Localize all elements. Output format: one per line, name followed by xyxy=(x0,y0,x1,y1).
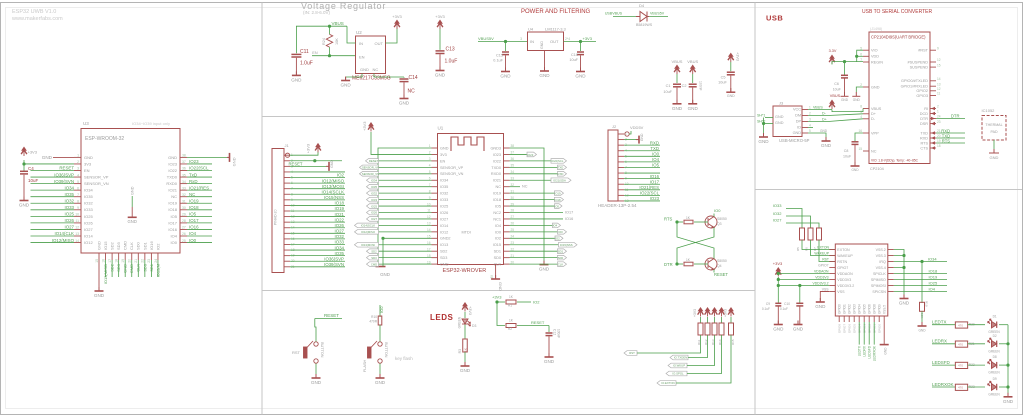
svg-text:7: 7 xyxy=(77,193,79,197)
svg-text:2: 2 xyxy=(429,151,431,155)
svg-text:1: 1 xyxy=(77,154,79,158)
U6 left pin names and stubs xyxy=(863,50,869,151)
svg-text:IO23: IO23 xyxy=(189,159,199,164)
svg-text:IO16: IO16 xyxy=(189,225,199,230)
svg-text:+3V3: +3V3 xyxy=(468,306,472,315)
svg-text:GND: GND xyxy=(131,186,135,195)
wire U1 right GND3 xyxy=(510,148,545,265)
svg-text:SENSOR_VP: SENSOR_VP xyxy=(440,166,464,170)
wire EN net xyxy=(312,55,356,57)
svg-text:11: 11 xyxy=(937,92,941,96)
svg-text:IO32: IO32 xyxy=(440,192,448,196)
svg-text:R6: R6 xyxy=(805,247,809,251)
LED D3 xyxy=(464,312,466,318)
module U3 ESP-WROOM-32 body xyxy=(81,129,180,254)
wire R10 to S2 xyxy=(379,325,381,342)
svg-text:GPIO3: GPIO3 xyxy=(916,94,928,98)
ground below C13 xyxy=(436,67,445,71)
panel divider middle top xyxy=(262,116,755,118)
svg-text:23: 23 xyxy=(937,120,941,124)
ground below C4 xyxy=(20,197,29,201)
svg-text:IO19: IO19 xyxy=(334,206,344,211)
svg-text:RESET: RESET xyxy=(369,159,379,163)
svg-text:SENSOR_VN: SENSOR_VN xyxy=(362,172,379,176)
svg-text:C13: C13 xyxy=(446,47,455,53)
wire LEDSFD to resistor xyxy=(932,364,955,366)
svg-text:39: 39 xyxy=(490,275,494,279)
svg-text:IO22(SCL: IO22(SCL xyxy=(189,166,209,171)
svg-text:VSS.4: VSS.4 xyxy=(876,266,886,270)
svg-text:IO12(MISO: IO12(MISO xyxy=(52,238,75,243)
resistor R22 xyxy=(955,362,967,368)
svg-text:RESET: RESET xyxy=(289,161,303,166)
svg-text:IO32: IO32 xyxy=(371,191,378,195)
svg-text:GND: GND xyxy=(168,155,177,160)
svg-text:IO2: IO2 xyxy=(337,173,345,178)
svg-text:VIO: VIO xyxy=(871,49,878,53)
svg-text:GND: GND xyxy=(884,347,888,355)
svg-text:VCC: VCC xyxy=(793,108,801,112)
LED D8 green xyxy=(988,359,997,368)
svg-text:DSR: DSR xyxy=(920,122,928,126)
power arrow VBUS C2 xyxy=(690,65,696,75)
svg-text:C9: C9 xyxy=(766,302,770,306)
svg-text:IO18: IO18 xyxy=(929,269,938,274)
svg-text:LEDSFD: LEDSFD xyxy=(932,360,951,365)
svg-text:IO5: IO5 xyxy=(652,163,660,168)
svg-text:ID: ID xyxy=(797,126,801,130)
svg-text:IO5: IO5 xyxy=(189,212,197,217)
svg-text:1.0uF: 1.0uF xyxy=(300,61,313,67)
svg-text:GPIO0: GPIO0 xyxy=(838,304,842,314)
svg-text:C6: C6 xyxy=(834,82,839,86)
svg-text:CP2104: CP2104 xyxy=(870,167,884,171)
ground below C2 xyxy=(688,100,697,104)
svg-text:IO.WKUP: IO.WKUP xyxy=(673,364,685,368)
svg-text:38: 38 xyxy=(511,144,515,148)
wires resistors to chip pins xyxy=(802,240,835,250)
svg-text:THERMAL: THERMAL xyxy=(985,123,1002,127)
svg-text:LEDS: LEDS xyxy=(430,313,454,322)
wire IRQ to IO34 xyxy=(894,261,947,263)
capacitor C3 input xyxy=(505,42,507,52)
svg-text:IO34: IO34 xyxy=(64,185,74,190)
junction J1 reset xyxy=(313,159,316,162)
svg-text:16: 16 xyxy=(427,241,431,245)
wire VBUS top to U2 IN xyxy=(347,26,356,43)
capacitor C10 xyxy=(798,284,801,287)
svg-text:25: 25 xyxy=(182,239,186,243)
ground below output cap xyxy=(576,68,585,72)
svg-text:RXD: RXD xyxy=(920,136,928,140)
svg-text:IO19: IO19 xyxy=(493,192,501,196)
svg-text:IO15(NSS: IO15(NSS xyxy=(324,195,344,200)
junction output cap xyxy=(579,40,582,43)
svg-text:35: 35 xyxy=(511,164,515,168)
svg-text:D1: D1 xyxy=(993,315,997,319)
svg-text:28: 28 xyxy=(182,219,186,223)
U3 right GND wire xyxy=(187,156,227,158)
svg-text:WAKEUP: WAKEUP xyxy=(814,251,829,255)
svg-text:POWER AND FILTERING: POWER AND FILTERING xyxy=(521,9,591,15)
pull-up resistor R15 xyxy=(730,317,732,323)
svg-text:CP2104DI9S(UART BRIDGE): CP2104DI9S(UART BRIDGE) xyxy=(871,35,926,40)
wire LEDRX to resistor xyxy=(932,343,955,345)
svg-text:IO14(SCLK: IO14(SCLK xyxy=(361,224,375,228)
svg-text:USB-MICRO-5P: USB-MICRO-5P xyxy=(779,138,810,143)
svg-text:4: 4 xyxy=(860,115,862,119)
svg-text:IO33: IO33 xyxy=(334,240,344,245)
U6 DTR output arrow xyxy=(931,117,935,121)
U1 left flags xyxy=(366,160,432,162)
svg-text:NC2: NC2 xyxy=(493,211,501,215)
svg-text:IO18: IO18 xyxy=(493,198,501,202)
svg-text:IO23: IO23 xyxy=(650,196,660,201)
ground below C3 xyxy=(501,68,510,72)
svg-text:GPIO0: GPIO0 xyxy=(878,324,882,334)
svg-text:22: 22 xyxy=(511,247,515,251)
svg-text:33: 33 xyxy=(511,176,515,180)
wire 3V3 rail to U3 pin 2 xyxy=(24,160,74,164)
svg-text:DM: DM xyxy=(795,114,801,118)
svg-text:IO0: IO0 xyxy=(171,240,178,245)
svg-text:RST: RST xyxy=(292,350,301,355)
svg-text:VBUS5V: VBUS5V xyxy=(650,12,665,16)
U3 left pin stubs xyxy=(74,157,81,242)
wire D2 cathode to rail xyxy=(999,343,1008,345)
svg-text:IO2: IO2 xyxy=(495,237,501,241)
panel divider vertical left xyxy=(261,3,263,415)
panel divider right column xyxy=(755,189,1022,191)
svg-text:+3V3: +3V3 xyxy=(306,143,311,153)
svg-text:SD2: SD2 xyxy=(110,263,115,272)
svg-text:ESP-WROOM-32: ESP-WROOM-32 xyxy=(85,136,124,142)
svg-text:27: 27 xyxy=(182,226,186,230)
capacitor C11 xyxy=(291,54,301,57)
svg-text:15: 15 xyxy=(858,147,862,151)
svg-text:3V3: 3V3 xyxy=(440,153,447,157)
svg-text:C12: C12 xyxy=(553,329,557,335)
resistor R19 IRQ pulldown xyxy=(921,262,923,304)
svg-text:26: 26 xyxy=(182,232,186,236)
svg-text:IO18: IO18 xyxy=(334,201,344,206)
svg-text:S8050: S8050 xyxy=(717,259,727,263)
svg-text:GND3: GND3 xyxy=(490,146,501,150)
svg-text:C2: C2 xyxy=(682,84,687,88)
wire VBUS rail xyxy=(296,26,347,53)
svg-text:IO26: IO26 xyxy=(440,211,448,215)
wire U2 OUT to +3V3 xyxy=(386,29,398,44)
svg-text:10K: 10K xyxy=(335,38,339,45)
svg-text:9: 9 xyxy=(429,196,431,200)
panel divider middle bottom xyxy=(262,290,755,292)
wires net labels to resistors xyxy=(786,209,802,229)
svg-text:LEDTX: LEDTX xyxy=(858,345,862,356)
svg-text:IO34~IO39 input only: IO34~IO39 input only xyxy=(132,121,170,126)
svg-text:(IN: 2.8-6.0V): (IN: 2.8-6.0V) xyxy=(303,10,331,15)
svg-text:D4: D4 xyxy=(639,3,645,8)
svg-text:GPIO2: GPIO2 xyxy=(848,304,852,314)
svg-text:GND: GND xyxy=(727,94,735,98)
LED D2 green xyxy=(988,338,997,347)
svg-text:GND: GND xyxy=(539,73,550,78)
svg-text:IO39(SVN: IO39(SVN xyxy=(54,179,74,184)
svg-text:SD1: SD1 xyxy=(558,250,564,254)
svg-text:#RST: #RST xyxy=(918,49,928,53)
svg-text:100nF: 100nF xyxy=(699,81,703,91)
svg-text:SD3: SD3 xyxy=(116,241,121,250)
svg-text:U3: U3 xyxy=(83,121,89,126)
junction RC group xyxy=(495,300,498,303)
svg-text:14: 14 xyxy=(427,228,431,232)
svg-text:SENSOR_VP: SENSOR_VP xyxy=(362,166,379,170)
svg-text:GND: GND xyxy=(291,77,302,82)
svg-text:SD2: SD2 xyxy=(440,250,447,254)
svg-text:D-: D- xyxy=(822,112,827,116)
svg-text:GREEN: GREEN xyxy=(988,393,1000,397)
ground below U4 xyxy=(540,67,549,71)
svg-text:17: 17 xyxy=(108,259,112,263)
svg-text:IO25: IO25 xyxy=(64,212,74,217)
ground below C8 xyxy=(851,162,860,166)
capacitor C13 xyxy=(439,29,441,50)
svg-text:TXD: TXD xyxy=(650,146,659,151)
svg-text:RXD: RXD xyxy=(558,172,564,176)
svg-text:CMD: CMD xyxy=(371,262,377,266)
svg-text:IO.SPOL: IO.SPOL xyxy=(672,372,684,376)
resistor R17 base Q4 xyxy=(677,263,683,265)
svg-text:IO34: IO34 xyxy=(928,257,937,262)
regulator U4 body xyxy=(528,32,564,51)
svg-text:IO17: IO17 xyxy=(650,179,660,184)
U7 right VSS wires to GND xyxy=(894,250,904,256)
svg-text:R24: R24 xyxy=(322,38,326,45)
svg-text:IO21(SDA: IO21(SDA xyxy=(553,179,566,183)
svg-text:RxD: RxD xyxy=(189,179,198,184)
svg-text:10: 10 xyxy=(75,213,79,217)
junctions and wires VDDAON VDD3V3 rows xyxy=(777,272,780,275)
svg-text:IO2: IO2 xyxy=(155,243,160,250)
svg-text:R10: R10 xyxy=(371,315,377,319)
svg-text:GND: GND xyxy=(544,359,555,364)
svg-text:RSTN: RSTN xyxy=(837,260,847,264)
svg-text:GND: GND xyxy=(775,115,784,119)
svg-text:TXD0: TXD0 xyxy=(491,166,501,170)
svg-text:U4: U4 xyxy=(528,27,534,32)
svg-text:IO4: IO4 xyxy=(929,287,936,292)
svg-text:IO25: IO25 xyxy=(84,214,93,219)
svg-text:18: 18 xyxy=(114,259,118,263)
svg-text:1K: 1K xyxy=(686,258,691,262)
svg-text:9: 9 xyxy=(937,46,939,50)
svg-text:30: 30 xyxy=(182,206,186,210)
U7 right pin stubs xyxy=(888,250,894,292)
svg-text:VDDAON: VDDAON xyxy=(814,270,829,274)
svg-text:IO13(MOSI: IO13(MOSI xyxy=(322,184,344,189)
svg-text:SD0: SD0 xyxy=(142,263,147,272)
svg-text:IO21(RES: IO21(RES xyxy=(189,185,209,190)
svg-text:U2: U2 xyxy=(356,30,362,35)
svg-text:GND: GND xyxy=(460,368,471,373)
svg-text:VBUS: VBUS xyxy=(687,59,698,64)
capacitor C5 xyxy=(730,62,732,71)
svg-text:GND: GND xyxy=(820,129,828,133)
svg-text:IO32: IO32 xyxy=(84,201,93,206)
svg-text:ESP32 UWB V1.0: ESP32 UWB V1.0 xyxy=(12,9,56,15)
svg-text:31: 31 xyxy=(182,199,186,203)
svg-text:SD3: SD3 xyxy=(440,256,447,260)
ground below S2 xyxy=(376,374,385,378)
ground below U7 bottom xyxy=(880,344,889,346)
svg-text:RESET: RESET xyxy=(531,320,545,325)
svg-text:100nF: 100nF xyxy=(557,329,561,338)
ground below R19 xyxy=(918,322,927,326)
resistor R16 base Q3 xyxy=(677,221,683,223)
svg-text:IO14: IO14 xyxy=(440,224,448,228)
ground below U3 xyxy=(95,287,104,291)
svg-text:1: 1 xyxy=(937,110,939,114)
svg-text:IO0: IO0 xyxy=(652,152,660,157)
svg-text:GND: GND xyxy=(375,380,386,385)
svg-text:IO15: IO15 xyxy=(103,241,108,250)
J1 pin stubs xyxy=(284,155,290,267)
svg-text:IO5: IO5 xyxy=(554,204,559,208)
svg-text:IO18: IO18 xyxy=(189,205,199,210)
svg-text:GND: GND xyxy=(84,155,93,160)
svg-text:SD0: SD0 xyxy=(494,256,501,260)
svg-text:NC: NC xyxy=(496,185,502,189)
svg-text:1.0uF: 1.0uF xyxy=(445,59,458,65)
wire J1 pin3 GND xyxy=(290,165,326,167)
svg-text:14: 14 xyxy=(937,77,941,81)
svg-text:IO23: IO23 xyxy=(168,161,177,166)
svg-text:29: 29 xyxy=(182,213,186,217)
svg-text:C16: C16 xyxy=(571,53,578,57)
svg-text:(J1498): (J1498) xyxy=(870,27,882,31)
wire LEDTX to resistor xyxy=(932,324,955,326)
svg-text:IO14(CLK: IO14(CLK xyxy=(54,231,74,236)
U6 right pin names and stubs xyxy=(930,50,936,148)
svg-text:GND: GND xyxy=(575,74,586,79)
wire R23 to LED xyxy=(968,386,986,388)
J1 pin 1 circle xyxy=(285,153,289,157)
svg-text:3V3: 3V3 xyxy=(84,161,92,166)
svg-text:5: 5 xyxy=(77,180,79,184)
junction VBUS xyxy=(328,25,331,28)
svg-text:IO33: IO33 xyxy=(64,205,74,210)
wire R3 to GND xyxy=(464,352,466,366)
svg-text:37: 37 xyxy=(182,160,186,164)
svg-text:IO13(MOSI: IO13(MOSI xyxy=(361,243,375,247)
svg-text:3.3V: 3.3V xyxy=(829,49,837,53)
ground below R3 xyxy=(461,362,470,366)
svg-text:IO33: IO33 xyxy=(440,198,448,202)
junction RTS xyxy=(675,220,678,223)
svg-text:GND: GND xyxy=(773,327,784,332)
wire 3V3 rail DW1000 xyxy=(777,277,779,294)
svg-text:FLASH: FLASH xyxy=(363,360,367,372)
resistor R10 xyxy=(378,316,382,325)
svg-text:SUSPEND: SUSPEND xyxy=(910,65,929,69)
svg-text:VBUS5V: VBUS5V xyxy=(478,36,494,41)
ground below C1 xyxy=(673,100,682,104)
svg-text:GPIO7: GPIO7 xyxy=(837,266,848,270)
resistor R24 zigzag xyxy=(329,26,331,34)
U7 left pin stubs xyxy=(829,250,835,292)
svg-text:+3V3: +3V3 xyxy=(435,14,445,19)
svg-text:IO27: IO27 xyxy=(84,227,93,232)
svg-text:SENSOR_VN: SENSOR_VN xyxy=(84,181,109,186)
resistor R23 xyxy=(955,384,967,390)
svg-text:C14: C14 xyxy=(409,75,418,81)
svg-text:GND: GND xyxy=(918,329,926,333)
svg-text:GND: GND xyxy=(440,146,449,150)
power arrow VBUS C1 xyxy=(674,65,680,75)
svg-text:6: 6 xyxy=(429,176,431,180)
U7 bottom wires xyxy=(858,322,860,345)
svg-text:34: 34 xyxy=(182,180,186,184)
svg-text:IO22(SCL: IO22(SCL xyxy=(551,159,564,163)
svg-text:VDD3V3.2: VDD3V3.2 xyxy=(837,284,854,288)
svg-text:SD1: SD1 xyxy=(142,241,147,250)
svg-text:GPIO2: GPIO2 xyxy=(916,89,928,93)
svg-text:20: 20 xyxy=(128,259,132,263)
svg-text:13: 13 xyxy=(75,232,79,236)
wire U1 GND pin1 rail xyxy=(378,148,432,266)
LED D9 green xyxy=(988,381,997,390)
junction R24 EN xyxy=(328,54,331,57)
svg-text:GREEN: GREEN xyxy=(988,349,1000,353)
svg-text:GND: GND xyxy=(672,106,683,111)
svg-text:VPP: VPP xyxy=(871,131,879,135)
power +3V3 above U2 xyxy=(394,20,400,30)
svg-text:IO25: IO25 xyxy=(371,204,378,208)
svg-text:15: 15 xyxy=(95,259,99,263)
svg-text:TXD: TXD xyxy=(558,166,564,170)
svg-text:D+: D+ xyxy=(871,112,877,116)
junction J3 shield xyxy=(762,122,765,125)
svg-text:CMD: CMD xyxy=(123,241,128,250)
power arrows above pull-ups xyxy=(698,307,704,317)
svg-text:GND: GND xyxy=(128,219,137,224)
svg-text:VDD3V3: VDD3V3 xyxy=(815,276,828,280)
svg-text:NC: NC xyxy=(522,185,528,189)
svg-text:470: 470 xyxy=(958,342,963,346)
svg-text:GPIO6: GPIO6 xyxy=(848,324,852,334)
svg-text:IO27: IO27 xyxy=(773,218,782,223)
wire VBUS arrow to VBUS pin xyxy=(832,109,863,112)
svg-text:35: 35 xyxy=(182,173,186,177)
wire RESET to S1 xyxy=(315,319,316,342)
svg-text:VBUS: VBUS xyxy=(332,21,344,26)
svg-text:IO19: IO19 xyxy=(929,275,938,280)
svg-text:IO35: IO35 xyxy=(84,194,93,199)
svg-text:LEDTX: LEDTX xyxy=(932,320,947,325)
svg-text:D-: D- xyxy=(871,117,876,121)
svg-text:IO33: IO33 xyxy=(773,203,782,208)
svg-text:IO33: IO33 xyxy=(371,198,378,202)
svg-text:GND: GND xyxy=(775,121,784,125)
svg-text:IO27: IO27 xyxy=(371,217,378,221)
svg-text:1: 1 xyxy=(809,106,811,110)
svg-text:13: 13 xyxy=(937,82,941,86)
svg-text:NC: NC xyxy=(171,194,177,199)
capacitor C1 xyxy=(676,74,678,83)
svg-text:WAKEUP: WAKEUP xyxy=(837,254,853,258)
ground J2 sideways xyxy=(636,136,639,144)
svg-text:GND: GND xyxy=(640,133,644,141)
svg-text:GND: GND xyxy=(539,267,550,272)
